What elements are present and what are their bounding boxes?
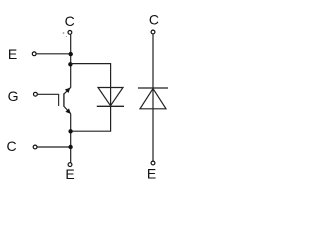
svg-text:G: G: [8, 88, 19, 104]
IGBT Q1 emitter diagonal: [64, 107, 71, 114]
wire emitter vertical: [70, 114, 72, 163]
IGBT Q1 collector arrow: [65, 88, 70, 93]
terminal C right (open circle): [151, 30, 155, 34]
IGBT Q1 body bar: [63, 93, 65, 107]
wire C aux horizontal: [37, 146, 70, 148]
wire gate horizontal: [38, 93, 60, 95]
wire diode branch top: [71, 64, 111, 132]
svg-text:C: C: [6, 138, 16, 154]
terminal E right (open circle): [151, 161, 155, 165]
IGBT Q1 emitter arrow: [65, 108, 70, 114]
terminal E bottom (open circle): [68, 163, 72, 167]
diode D2 cathode bar: [138, 87, 168, 89]
svg-text:E: E: [65, 166, 74, 182]
wire diode D2 vertical: [152, 34, 154, 161]
speck artifact: [63, 32, 64, 33]
svg-text:E: E: [8, 46, 17, 62]
diode D2 triangle: [140, 89, 166, 109]
junction dot 2: [68, 62, 72, 66]
junction dot 4: [68, 145, 72, 149]
diode D1 cathode bar: [97, 105, 124, 107]
terminal C top (open circle): [68, 31, 72, 35]
terminal G (open circle): [34, 92, 38, 96]
junction dot 3: [68, 129, 72, 133]
wire E aux horizontal: [36, 53, 70, 55]
terminal E aux (open circle): [32, 52, 36, 56]
wire collector vertical: [70, 35, 72, 88]
junction dot 1: [69, 52, 73, 56]
diode D1 (freewheel) triangle: [98, 88, 123, 106]
speck artifact 2: [66, 36, 67, 37]
IGBT Q1 gate bar: [58, 94, 60, 106]
svg-text:C: C: [149, 12, 159, 28]
svg-text:E: E: [147, 165, 156, 181]
terminal C aux (open circle): [33, 145, 37, 149]
svg-text:C: C: [65, 13, 75, 29]
IGBT Q1 collector diagonal: [64, 87, 70, 93]
